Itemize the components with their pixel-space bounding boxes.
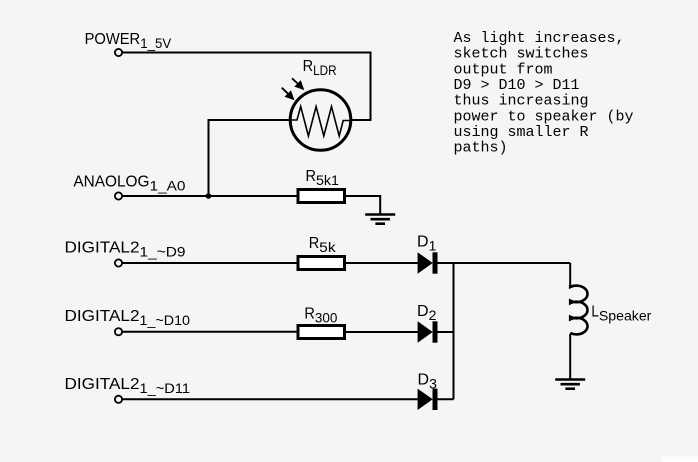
- svg-text:DIGITAL21_~D10: DIGITAL21_~D10: [65, 308, 191, 328]
- svg-text:ANAOLOG1_A0: ANAOLOG1_A0: [73, 174, 185, 194]
- svg-text:thus increasing: thus increasing: [454, 93, 589, 110]
- svg-text:LSpeaker: LSpeaker: [591, 303, 651, 323]
- svg-text:power to speaker (by: power to speaker (by: [454, 108, 634, 125]
- svg-text:using smaller R: using smaller R: [454, 124, 589, 141]
- svg-text:paths): paths): [454, 140, 508, 157]
- svg-text:RLDR: RLDR: [303, 58, 337, 78]
- svg-text:R300: R300: [304, 306, 337, 326]
- svg-text:D9 > D10 > D11: D9 > D10 > D11: [454, 77, 580, 94]
- svg-text:POWER1_5V: POWER1_5V: [85, 31, 172, 51]
- svg-text:D3: D3: [418, 372, 438, 392]
- svg-text:output from: output from: [454, 61, 553, 78]
- svg-text:R5k: R5k: [309, 235, 337, 255]
- svg-text:sketch switches: sketch switches: [454, 46, 589, 63]
- svg-text:DIGITAL21_~D11: DIGITAL21_~D11: [65, 376, 191, 396]
- svg-text:As light increases,: As light increases,: [454, 30, 625, 47]
- svg-text:R5k1: R5k1: [306, 168, 340, 188]
- svg-text:D1: D1: [417, 234, 437, 254]
- svg-text:D2: D2: [417, 303, 437, 323]
- svg-text:DIGITAL21_~D9: DIGITAL21_~D9: [65, 240, 186, 260]
